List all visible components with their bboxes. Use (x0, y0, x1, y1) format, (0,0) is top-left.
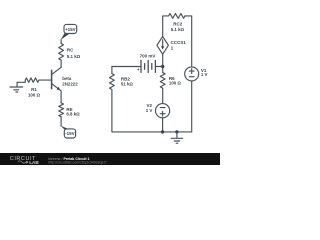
wire RB2 top (111, 67, 113, 74)
resistor R6 (160, 73, 165, 89)
svg-text:R1: R1 (31, 87, 37, 92)
junction dot ground/rail (175, 130, 178, 133)
battery V3 700 mV (141, 60, 155, 72)
svg-text:+: + (137, 67, 140, 72)
svg-text:http://circuitlab.com/c6q3c349: http://circuitlab.com/c6q3c349c8qe7/ (48, 160, 106, 164)
logo LAB (26, 161, 28, 164)
svg-text:-15V: -15V (65, 131, 75, 136)
power flag -15V (61, 126, 76, 138)
wire collector up (60, 60, 62, 67)
resistor RB2 (110, 74, 115, 90)
svg-text:RC2: RC2 (173, 22, 182, 27)
wire battery right lead (155, 66, 162, 68)
svg-text:1 V: 1 V (201, 72, 208, 77)
voltage source V2 (156, 104, 170, 118)
svg-text:2N2222: 2N2222 (62, 82, 78, 87)
power flag +15V (61, 24, 77, 40)
wire CCCS to node (162, 54, 164, 72)
resistor RC2 (169, 13, 185, 18)
wire V1 to rail (191, 81, 193, 132)
ground GND2 (171, 132, 183, 143)
svg-text:+15V: +15V (65, 27, 76, 32)
footer bar (0, 153, 220, 165)
ground GND1 (left input) (10, 82, 23, 92)
wire ground to R1 (17, 80, 25, 82)
svg-text:RC: RC (67, 48, 74, 53)
wire top loop right (185, 16, 192, 67)
svg-text:CCCS1: CCCS1 (171, 40, 187, 45)
wire RB2 bottom (111, 90, 113, 132)
current source CCCS1 (157, 37, 169, 55)
svg-text:51 kΩ: 51 kΩ (121, 82, 134, 87)
svg-text:5.1 kΩ: 5.1 kΩ (67, 54, 81, 59)
svg-text:5.1 kΩ: 5.1 kΩ (171, 27, 185, 32)
wire RE to -15V (60, 117, 62, 126)
transistor Q1 2N2222 (52, 67, 62, 91)
wire RC to +15V (60, 40, 62, 44)
logo sine wave (18, 161, 26, 163)
svg-text:LAB: LAB (29, 160, 39, 165)
svg-text:1 V: 1 V (146, 108, 153, 113)
svg-text:100 Ω: 100 Ω (169, 81, 182, 86)
svg-text:6.8 kΩ: 6.8 kΩ (66, 112, 80, 117)
wire battery left lead (112, 66, 141, 68)
wire bottom rail (112, 131, 192, 133)
resistor R1 (25, 78, 39, 82)
wire V2 to rail (162, 118, 164, 132)
svg-text:100 Ω: 100 Ω (28, 93, 41, 98)
wire R1 to base (39, 79, 52, 81)
resistor RC (59, 44, 64, 61)
svg-text:beta: beta (62, 76, 72, 81)
junction dot battery node (161, 65, 164, 68)
wire R6 to V2 (162, 88, 164, 103)
voltage source V1 (185, 67, 199, 81)
resistor RE (59, 103, 64, 117)
wire emitter down (60, 91, 62, 103)
wire top loop left (CCCS to RC2) (163, 16, 169, 37)
svg-text:700 mV: 700 mV (140, 53, 156, 58)
junction dot V2/rail (161, 130, 164, 133)
